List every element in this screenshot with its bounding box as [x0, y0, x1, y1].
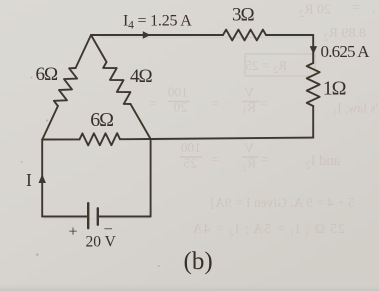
wire top to right corner: [266, 34, 313, 36]
svg-text:=: =: [352, 1, 360, 16]
svg-text:V: V: [244, 85, 254, 100]
wire top from apex: [91, 34, 223, 36]
svg-text:.: .: [372, 2, 376, 17]
arrow for I4 on top wire: [143, 31, 151, 38]
paper speck: [46, 120, 48, 122]
svg-text:4Ω: 4Ω: [130, 66, 153, 87]
svg-text:V: V: [244, 141, 254, 156]
wire bottom left to battery: [42, 216, 88, 218]
arrow down for 0.625 A: [310, 46, 317, 54]
triangle left slope upper wire: [76, 35, 91, 68]
svg-text:3Ω: 3Ω: [232, 5, 255, 26]
resistor 4-ohm zigzag: [103, 62, 130, 104]
svg-text:20 V: 20 V: [86, 234, 117, 251]
battery long plate: [87, 203, 89, 228]
wire battery to bottom right: [98, 216, 151, 218]
scan fringe under right-loop bottom wire: [152, 139, 312, 140]
svg-text:0.625 A: 0.625 A: [321, 42, 371, 61]
svg-text:=: =: [211, 153, 219, 168]
svg-text:+: +: [69, 224, 78, 241]
paper speck: [36, 254, 38, 256]
svg-text:6Ω: 6Ω: [90, 109, 113, 131]
arrow up for I on left wire: [39, 174, 46, 183]
svg-text:100: 100: [168, 85, 189, 100]
paper speck: [158, 265, 160, 267]
resistor 6-ohm base zigzag: [80, 133, 121, 145]
svg-text:=: =: [211, 97, 219, 112]
paper speck: [21, 161, 23, 163]
paper speck: [31, 77, 33, 79]
wire left vertical down: [41, 140, 43, 217]
ghost boxed result R2 = 25 ohm (mirrored show-through): [245, 54, 315, 76]
svg-text:(b): (b): [184, 248, 213, 275]
svg-text:5 + 4 = 9 A. Given I = 9A]: 5 + 4 = 9 A. Given I = 9A]: [211, 195, 355, 210]
triangle right slope upper wire: [91, 35, 107, 62]
svg-text:=: =: [149, 97, 157, 112]
resistor 6-ohm left zigzag: [54, 68, 77, 106]
svg-text:25: 25: [183, 156, 197, 171]
wire right vertical upper: [312, 35, 314, 63]
svg-text:I4 = 1.25 A: I4 = 1.25 A: [123, 13, 192, 32]
svg-text:8.89 R2: 8.89 R2: [324, 26, 366, 44]
svg-text:and I2: and I2: [306, 153, 340, 172]
circuit wires and components: [42, 30, 320, 229]
scan fringe under bottom wire: [44, 218, 150, 220]
triangle left slope lower wire: [42, 106, 58, 140]
wire right vertical down: [150, 139, 152, 217]
wire bottom of right loop: [151, 138, 314, 139]
svg-text:100: 100: [181, 140, 202, 155]
battery short plate: [97, 208, 99, 225]
triangle base wire right part: [120, 138, 151, 140]
triangle right slope lower wire: [131, 104, 151, 139]
svg-text:25 Ω ; I1 = 5A ; I2 = 4A: 25 Ω ; I1 = 5A ; I2 = 4A: [192, 221, 345, 238]
svg-text:=: =: [259, 97, 267, 112]
triangle base wire left part: [42, 138, 79, 140]
wire right vertical lower: [312, 106, 314, 138]
resistor 1-ohm zigzag: [307, 63, 320, 106]
scan fringe under top wire: [100, 36, 313, 38]
resistor 3-ohm zigzag: [223, 30, 266, 41]
svg-text:=: =: [261, 153, 269, 168]
svg-text:6Ω: 6Ω: [36, 64, 59, 85]
svg-text:1Ω: 1Ω: [323, 77, 346, 99]
svg-text:I: I: [26, 170, 32, 190]
